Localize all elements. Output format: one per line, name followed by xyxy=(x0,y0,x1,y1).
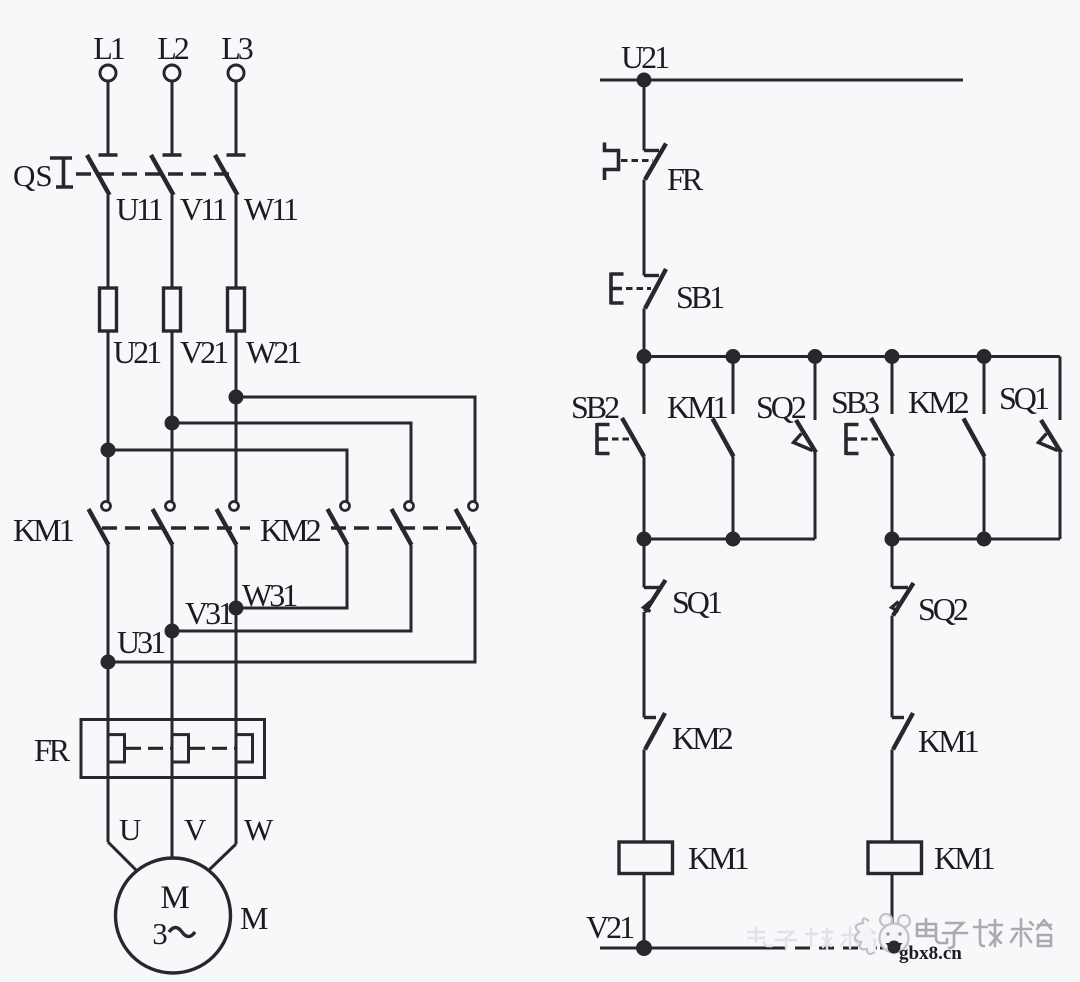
svg-text:SB2: SB2 xyxy=(571,389,619,425)
contactor KM2 pole 1 xyxy=(328,502,350,546)
svg-text:L3: L3 xyxy=(221,30,253,66)
wire bottom bus left group xyxy=(644,538,815,541)
wire KM2 pole1 to W31 xyxy=(236,545,347,608)
junction bus SQ2 xyxy=(809,351,821,363)
svg-text:U21: U21 xyxy=(113,334,161,370)
switch QS pole 2 blade xyxy=(151,155,174,195)
watermark ghost text xyxy=(748,927,875,949)
wire SB1 to bus xyxy=(643,309,646,357)
junction bus SB3 xyxy=(886,351,898,363)
wire V11 xyxy=(171,195,174,288)
svg-text:L1: L1 xyxy=(93,30,125,66)
svg-text:SQ1: SQ1 xyxy=(672,584,722,620)
relay FR NC contact blade xyxy=(645,144,666,180)
switch SQ1 NO roller xyxy=(1039,434,1058,451)
watermark text dianzijishukong xyxy=(917,919,1051,948)
junction bottom SB3 xyxy=(886,533,898,545)
motor M1 circle xyxy=(116,858,231,973)
contact KM2 aux branch wire top xyxy=(983,357,986,415)
svg-text:QS: QS xyxy=(13,158,53,193)
switch SQ2 NO branch wire bottom xyxy=(814,453,817,540)
svg-text:KM1: KM1 xyxy=(667,389,728,425)
wire V21 down xyxy=(171,331,174,502)
relay FR trip dashed xyxy=(621,159,653,162)
switch QS pole 3 bar xyxy=(227,153,246,157)
junction W31 xyxy=(230,602,242,614)
button SB2 actuator E xyxy=(597,423,610,455)
contact KM2 NC blade xyxy=(645,713,665,750)
wire U21 to FR contact xyxy=(643,80,646,151)
wire right coil to V21 bus xyxy=(891,874,894,949)
contact KM2 aux branch wire bottom xyxy=(983,457,986,540)
contact KM1 NC blade xyxy=(893,713,913,750)
wire KM2 pole2 to V31 xyxy=(172,545,411,631)
svg-text:KM1: KM1 xyxy=(934,840,995,876)
switch QS pole 2 bar xyxy=(163,153,182,157)
wire SQ2 NC to KM1 NC xyxy=(891,616,894,718)
switch SQ2 NC bar xyxy=(892,586,908,589)
wire U21 bus xyxy=(600,79,963,82)
svg-text:V11: V11 xyxy=(180,191,227,227)
wire KM2 NC to coil xyxy=(643,750,646,843)
junction W21 to KM2 xyxy=(230,391,242,403)
wire W11 xyxy=(235,195,238,288)
button SB3 branch wire bottom xyxy=(891,457,894,540)
fuse FU phase U xyxy=(100,288,117,331)
terminal L3 xyxy=(228,65,244,81)
wire V21 bus dashed xyxy=(771,947,877,950)
svg-text:FR: FR xyxy=(34,732,71,768)
junction V21 to KM2 xyxy=(166,417,178,429)
junction bus KM1 xyxy=(727,351,739,363)
relay FR trip actuator xyxy=(605,143,619,181)
wire U to motor diagonal xyxy=(108,842,136,870)
wire W21 to KM2 pole3 xyxy=(236,397,475,502)
switch SQ1 NO blade xyxy=(1041,420,1061,453)
contact KM1 NC bar xyxy=(892,716,904,719)
switch QS pole 1 bar xyxy=(99,153,118,157)
svg-text:SQ2: SQ2 xyxy=(756,389,806,425)
svg-text:SQ1: SQ1 xyxy=(999,380,1049,416)
button SB1 actuator E xyxy=(611,273,624,305)
button SB2 NO blade xyxy=(622,418,644,457)
wire W to motor diagonal xyxy=(209,844,236,870)
fuse FU phase V xyxy=(164,288,181,331)
junction bus SB2 xyxy=(638,351,650,363)
contact KM2 aux NO blade xyxy=(964,419,985,457)
button SB1 dashed xyxy=(626,287,651,290)
watermark logo xyxy=(855,914,910,954)
junction U21 to KM2 xyxy=(102,444,114,456)
svg-text:U31: U31 xyxy=(117,624,165,660)
svg-text:M: M xyxy=(240,900,268,936)
junction bottom KM2 xyxy=(978,533,990,545)
wire U21 down xyxy=(107,331,110,502)
svg-text:V21: V21 xyxy=(180,334,228,370)
wire L2 to QS xyxy=(171,81,174,155)
button SB3 NO blade xyxy=(871,418,893,457)
contactor KM2 linkage dashed xyxy=(331,526,470,529)
junction V21 right xyxy=(886,941,903,955)
contact KM1 aux NO blade xyxy=(713,419,734,457)
svg-text:gbx8.cn: gbx8.cn xyxy=(899,943,962,964)
junction bottom KM1 xyxy=(727,533,739,545)
switch QS linkage dashed xyxy=(76,172,235,175)
switch SQ2 NO branch wire top xyxy=(814,357,817,421)
coil KM1 left xyxy=(619,842,673,874)
wire U phase KM1 to motor xyxy=(107,545,110,842)
contactor KM1 linkage dashed xyxy=(102,526,250,529)
switch SQ1 NO branch wire top xyxy=(1059,357,1062,421)
wire L1 to QS xyxy=(107,81,110,155)
wire V21 bus solid xyxy=(600,947,772,950)
contactor KM2 pole 3 xyxy=(456,502,478,546)
terminal L2 xyxy=(164,65,180,81)
fuse FU phase W xyxy=(228,288,245,331)
button SB3 dashed xyxy=(861,438,880,441)
button SB3 actuator E xyxy=(846,423,859,455)
contactor KM1 pole 3 xyxy=(217,502,239,546)
svg-text:W: W xyxy=(244,812,274,847)
svg-text:3: 3 xyxy=(152,916,168,951)
svg-text:KM2: KM2 xyxy=(672,720,733,756)
svg-text:V: V xyxy=(184,812,207,847)
svg-text:V21: V21 xyxy=(586,909,634,945)
svg-text:L2: L2 xyxy=(157,30,189,66)
contactor KM2 pole 2 xyxy=(392,502,414,546)
svg-text:SB1: SB1 xyxy=(676,279,724,315)
wire U21 to KM2 pole1 xyxy=(108,450,347,502)
svg-text:KM2: KM2 xyxy=(908,384,969,420)
contactor KM1 pole 1 xyxy=(89,502,111,546)
switch SQ2 NC roller xyxy=(892,602,899,612)
svg-text:U11: U11 xyxy=(116,191,163,227)
switch SQ1 NC roller xyxy=(644,602,651,612)
junction V31 xyxy=(166,625,178,637)
svg-text:W31: W31 xyxy=(242,577,297,613)
button SB1 NC blade xyxy=(645,269,666,309)
button SB2 branch wire top xyxy=(643,357,646,415)
contactor KM1 pole 2 xyxy=(153,502,175,546)
relay FR link dashed 1 xyxy=(126,747,171,750)
wire W phase KM1 to motor xyxy=(235,545,238,844)
coil KM1 right xyxy=(868,842,922,874)
switch SQ2 NO blade xyxy=(796,420,816,453)
wire V21 to KM2 pole2 xyxy=(172,423,411,502)
contact KM1 aux branch wire bottom xyxy=(732,457,735,540)
wire KM1 NC to coil xyxy=(891,750,894,843)
svg-text:U21: U21 xyxy=(621,39,669,75)
wire V21 bus end xyxy=(880,947,896,950)
contact KM2 NC bar xyxy=(644,716,656,719)
junction U31 xyxy=(102,656,114,668)
relay FR box xyxy=(81,720,265,778)
svg-text:KM2: KM2 xyxy=(260,512,321,548)
terminal L1 xyxy=(100,65,116,81)
wire W21 down xyxy=(235,331,238,502)
svg-text:M: M xyxy=(160,880,189,916)
svg-text:KM1: KM1 xyxy=(13,512,74,548)
switch SQ1 NO branch wire bottom xyxy=(1059,453,1062,540)
svg-text:KM1: KM1 xyxy=(918,723,979,759)
button SB2 dashed xyxy=(612,438,631,441)
button SB2 branch wire bottom xyxy=(643,457,646,540)
relay FR heater U xyxy=(108,735,125,762)
junction U21 bus xyxy=(638,74,650,86)
junction bus KM2 xyxy=(978,351,990,363)
svg-text:FR: FR xyxy=(667,161,704,197)
svg-text:W11: W11 xyxy=(244,191,298,227)
wire V phase KM1 to motor xyxy=(171,545,174,858)
switch QS pole 1 blade xyxy=(87,155,110,195)
switch SQ1 NC bar xyxy=(644,586,660,589)
wire SQ1 NC to KM2 NC xyxy=(643,612,646,718)
relay FR link dashed 2 xyxy=(190,747,235,750)
wire L3 to QS xyxy=(235,81,238,155)
button SB3 branch wire top xyxy=(891,357,894,415)
relay FR heater W xyxy=(236,735,253,762)
wire bottom bus right group xyxy=(892,538,1060,541)
svg-text:SB3: SB3 xyxy=(831,384,879,420)
svg-text:V31: V31 xyxy=(185,595,233,631)
junction bottom SB2 xyxy=(638,533,650,545)
relay FR NC contact bar xyxy=(644,149,659,152)
contact KM1 aux branch wire top xyxy=(732,357,735,415)
switch SQ2 NC blade xyxy=(893,583,914,616)
switch QS pole 3 blade xyxy=(215,155,238,195)
switch SQ2 NO roller xyxy=(794,434,813,451)
relay FR heater V xyxy=(172,735,189,762)
wire coil to V21 bus xyxy=(643,874,646,949)
wire KM2 pole3 to U31 xyxy=(108,545,475,662)
svg-text:SQ2: SQ2 xyxy=(918,591,968,627)
svg-text:KM1: KM1 xyxy=(688,840,749,876)
wire FR to SB1 xyxy=(643,180,646,276)
button SB1 NC bar xyxy=(644,274,659,277)
wire U11 xyxy=(107,195,110,288)
svg-text:W21: W21 xyxy=(246,334,301,370)
wire left rail to SQ1 NC xyxy=(643,539,646,588)
wire control bus top xyxy=(644,355,1060,358)
svg-text:U: U xyxy=(119,812,141,847)
wire right rail to SQ2 NC xyxy=(891,539,894,588)
switch QS handle xyxy=(50,158,73,187)
junction V21 left xyxy=(638,942,651,955)
switch SQ1 NC blade xyxy=(645,580,666,612)
